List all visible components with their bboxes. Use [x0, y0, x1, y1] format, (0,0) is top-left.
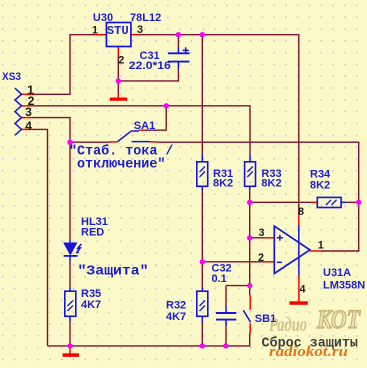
- svg-text:RED: RED: [81, 227, 104, 239]
- svg-text:2: 2: [258, 252, 264, 264]
- svg-text:КОТ: КОТ: [316, 305, 361, 334]
- svg-text:"Защита": "Защита": [78, 265, 149, 280]
- svg-text:22.0*16: 22.0*16: [129, 60, 171, 72]
- svg-text:3: 3: [258, 227, 264, 239]
- svg-text:4K7: 4K7: [166, 311, 186, 323]
- svg-text:SB1: SB1: [255, 313, 276, 325]
- svg-text:R32: R32: [166, 300, 186, 312]
- svg-text:1: 1: [92, 25, 98, 37]
- svg-text:отключение": отключение": [77, 158, 165, 173]
- svg-text:STU: STU: [107, 24, 129, 38]
- svg-text:U31A: U31A: [323, 267, 351, 279]
- svg-text:8K2: 8K2: [310, 180, 330, 192]
- svg-text:8: 8: [298, 206, 304, 218]
- svg-text:8K2: 8K2: [213, 178, 233, 190]
- svg-text:8K2: 8K2: [261, 178, 281, 190]
- svg-text:R34: R34: [310, 168, 331, 180]
- svg-text:0.1: 0.1: [212, 273, 227, 285]
- svg-text:4K7: 4K7: [81, 299, 101, 311]
- svg-text:3: 3: [25, 105, 32, 119]
- svg-text:Сброс защиты: Сброс защиты: [262, 336, 358, 352]
- svg-text:LM358N: LM358N: [323, 280, 365, 292]
- svg-text:1: 1: [318, 239, 324, 251]
- svg-text:4: 4: [25, 119, 32, 133]
- svg-text:3: 3: [137, 24, 143, 36]
- svg-text:U30: U30: [93, 12, 113, 24]
- svg-text:XS3: XS3: [2, 71, 21, 83]
- svg-text:SA1: SA1: [134, 120, 155, 132]
- svg-text:78L12: 78L12: [130, 12, 161, 24]
- svg-text:2: 2: [118, 55, 124, 67]
- svg-text:4: 4: [299, 284, 305, 296]
